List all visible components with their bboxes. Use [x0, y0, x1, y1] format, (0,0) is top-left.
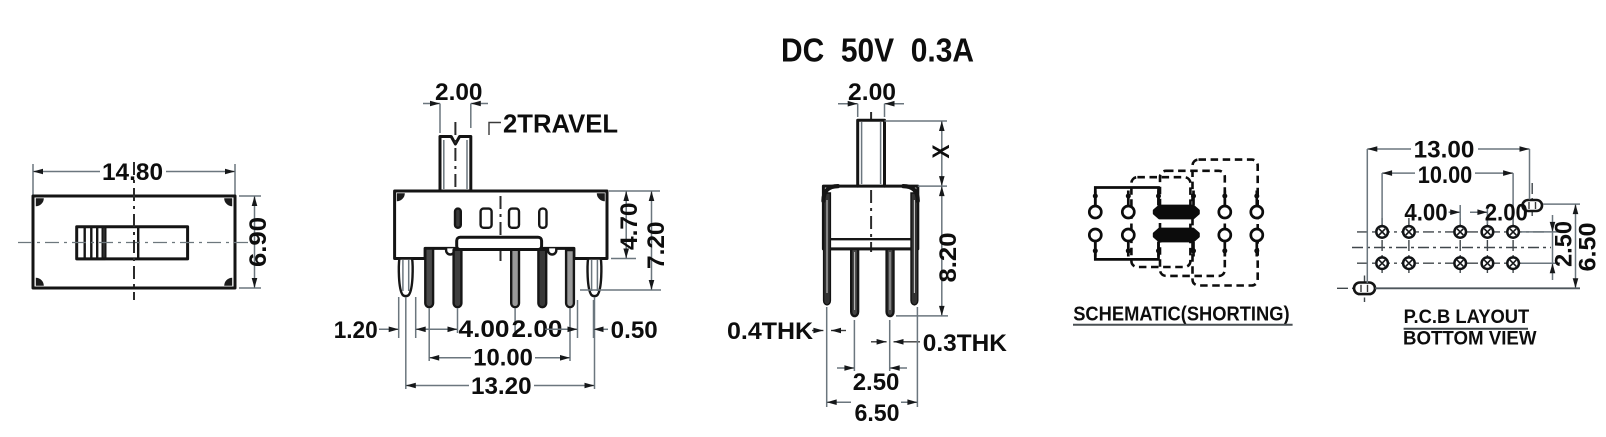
dim 7.20 extension line bottom: [580, 289, 661, 291]
dim 2.00 arrows: [838, 103, 858, 105]
dim 10.00 line: [429, 357, 471, 359]
dim X line: [941, 121, 943, 186]
dim 8.20 extension line (body top): [918, 185, 947, 187]
terminal stems bottom row: [1095, 241, 1257, 257]
stem dots top row: [1093, 194, 1260, 199]
corner mark bottom-left: [36, 278, 44, 286]
2TRAVEL leader bracket: [489, 123, 501, 136]
svg-text:X: X: [928, 145, 955, 159]
svg-text:7.20: 7.20: [643, 222, 670, 270]
corner mark top-left: [36, 198, 44, 206]
dim 2.00 arrow: [1470, 211, 1487, 213]
frame corner arc left: [823, 186, 838, 201]
svg-text:14.80: 14.80: [102, 159, 163, 186]
dim 8.20 extension line (pin tip): [896, 315, 948, 317]
stem dots bottom row: [1093, 248, 1260, 253]
actuator stem inner edge lines: [443, 140, 445, 189]
dim 4.70 line: [625, 191, 627, 259]
pin row right (side): [887, 249, 894, 316]
actuator slot outline: [77, 227, 188, 259]
svg-text:6.90: 6.90: [245, 217, 272, 267]
wire common top (pole 1): [1095, 188, 1158, 207]
svg-text:2.50: 2.50: [1551, 221, 1578, 267]
terminal pin 5: [566, 250, 574, 307]
metal frame right bar: [911, 193, 918, 305]
dim 6.90 line: [254, 196, 256, 288]
knob ridge 2: [90, 228, 92, 258]
dim X extension line (stem top): [885, 120, 948, 122]
pcb caption underline: [1404, 328, 1528, 330]
dim 1.20 arrows: [379, 328, 399, 330]
svg-text:BOTTOM VIEW: BOTTOM VIEW: [1403, 328, 1537, 349]
slider position box 1 (dashed): [1131, 177, 1190, 267]
corner mark top-right: [224, 198, 232, 206]
slot divider line: [137, 227, 139, 259]
svg-text:13.20: 13.20: [471, 373, 532, 400]
actuator stem centerline: [454, 122, 456, 196]
terminal pin 2: [454, 250, 462, 307]
metal frame left bar: [824, 193, 831, 305]
svg-text:1.20: 1.20: [334, 317, 378, 344]
body vertical centerline: [500, 196, 502, 262]
dim 2.50 line (pcb): [1552, 215, 1554, 232]
dim 14.80 extension line left: [32, 164, 34, 196]
terminal pin 4: [538, 250, 546, 307]
shorting bar top (pole 1 slider): [1154, 206, 1198, 218]
svg-text:4.00: 4.00: [459, 316, 510, 343]
dim 6.90 extension bottom: [239, 287, 261, 289]
pin row left (side): [851, 249, 858, 316]
contact slot 2: [481, 209, 492, 228]
contact slot 3: [509, 209, 519, 228]
knob ridge 3: [96, 228, 98, 258]
svg-text:0.50: 0.50: [611, 317, 658, 344]
slider position box 2 (dashed): [1160, 171, 1225, 276]
dim 10.00 line: [1382, 172, 1415, 174]
knob ridge 1: [83, 228, 85, 258]
svg-text:10.00: 10.00: [473, 345, 533, 372]
corner mark bottom-right: [224, 278, 232, 286]
svg-text:2.00: 2.00: [435, 79, 483, 106]
terminal circles top row: [1089, 206, 1263, 218]
svg-text:6.50: 6.50: [1575, 223, 1602, 272]
wire common bottom (pole 2): [1095, 241, 1158, 260]
svg-text:8.20: 8.20: [935, 233, 962, 283]
stem centerline: [870, 112, 872, 252]
dim 2.50 extension lines (side): [853, 320, 855, 371]
pad crosses: [1379, 229, 1516, 267]
dim 8.20 line: [941, 186, 943, 316]
bottom notch right: [548, 248, 556, 254]
knob ridge 4: [101, 228, 103, 258]
svg-text:2.00: 2.00: [1485, 199, 1528, 226]
svg-text:2.00: 2.00: [848, 79, 896, 106]
terminal stems top row: [1095, 191, 1257, 207]
dim 14.80 line: [33, 171, 100, 173]
dim 13.00 line: [1367, 148, 1411, 150]
contact slot 4: [539, 209, 546, 228]
knob (ridged): [77, 227, 106, 259]
extension lines below legs and pins: [398, 297, 400, 338]
mounting hole pad bottom-left: [1337, 287, 1354, 289]
middle axis centerline: [1352, 247, 1551, 249]
dim 0.4THK arrows: [812, 330, 823, 332]
dim 6.50 extension lines (pcb): [1543, 203, 1580, 205]
svg-text:2TRAVEL: 2TRAVEL: [503, 109, 618, 139]
contact slot 1: [455, 209, 461, 228]
dim 6.90 extension top: [239, 195, 261, 197]
schematic caption underline: [1073, 324, 1293, 326]
terminal circles bottom row: [1089, 229, 1263, 241]
base bottom lines: [831, 238, 910, 240]
dim 6.50 line (side): [827, 401, 851, 403]
slider position box 3 (dashed): [1193, 160, 1258, 286]
svg-text:4.70: 4.70: [616, 203, 643, 251]
dim 2.00 line arrows: [423, 103, 440, 105]
dim 2.50 extension lines (pcb): [1521, 231, 1560, 233]
dim 4.00 arrow: [433, 328, 458, 330]
svg-text:6.50: 6.50: [855, 400, 900, 427]
stem inner edge lines: [861, 122, 863, 184]
svg-text:DC 50V 0.3A: DC 50V 0.3A: [781, 32, 974, 69]
horizontal centerline: [18, 242, 250, 244]
terminal pin 3: [511, 250, 519, 307]
svg-text:4.00: 4.00: [1404, 199, 1447, 226]
central base tab: [457, 237, 542, 249]
svg-text:SCHEMATIC(SHORTING): SCHEMATIC(SHORTING): [1073, 303, 1289, 326]
svg-text:2.50: 2.50: [853, 369, 900, 396]
body corner mark left: [397, 193, 405, 201]
vertical centerline: [133, 162, 135, 300]
bottom notch left: [446, 248, 454, 254]
row centerline bottom: [1357, 262, 1546, 264]
row centerline top: [1357, 231, 1546, 233]
dim 14.80 extension line right: [234, 164, 236, 196]
dim 0.3THK arrows: [871, 341, 887, 343]
body outline (side): [823, 186, 917, 249]
dim 7.20 line: [651, 191, 653, 290]
dim 13.20 line: [406, 385, 469, 387]
shorting bar bottom (pole 2 slider): [1154, 229, 1198, 241]
terminal pin 1: [425, 249, 433, 308]
svg-text:0.4THK: 0.4THK: [727, 318, 814, 345]
body corner mark right: [597, 193, 605, 201]
svg-text:0.3THK: 0.3THK: [923, 330, 1008, 357]
actuator stem outline with V notch top: [440, 137, 471, 192]
dim 2.00 extension lines: [439, 104, 441, 134]
column centerlines: [1382, 218, 1513, 277]
dim 2.50 arrows (side): [837, 367, 854, 369]
dim 0.50 arrows: [545, 328, 578, 330]
switch body outline (top view): [33, 196, 235, 288]
dim 2.00 extension lines: [857, 104, 859, 117]
pads bottom row: [1376, 257, 1519, 269]
mounting leg right (front): [588, 259, 602, 297]
svg-text:P.C.B LAYOUT: P.C.B LAYOUT: [1404, 307, 1530, 328]
switch body outline (front view): [395, 191, 607, 259]
dim 4.00 arrow: [1449, 211, 1461, 213]
dim 13.00 extension lines: [1366, 149, 1368, 283]
dim 6.50 extension lines (side): [826, 307, 828, 407]
dim 4.70 extension lines: [609, 190, 660, 192]
mounting leg left (front): [399, 259, 413, 297]
dim 6.50 line (pcb): [1575, 204, 1577, 288]
frame corner arc right: [903, 186, 918, 201]
svg-text:10.00: 10.00: [1418, 162, 1473, 189]
mounting hole pad top-right: [1531, 183, 1533, 218]
dim 10.00 extension lines: [1381, 173, 1383, 224]
dim 4.00/2.00 extension lines: [1459, 205, 1461, 224]
pads top row: [1376, 226, 1519, 238]
svg-text:13.00: 13.00: [1414, 137, 1475, 164]
actuator stem (side): [858, 120, 885, 186]
